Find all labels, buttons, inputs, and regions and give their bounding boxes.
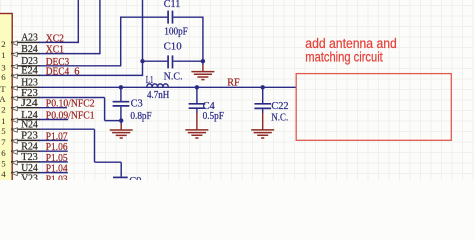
ground stem (C4) [196,109,198,113]
svg-text:0.8pF: 0.8pF [130,111,151,122]
svg-text:1: 1 [1,116,5,126]
wire XC2 vertical [77,0,79,43]
pin A23 [11,41,40,43]
svg-text:U24: U24 [21,163,38,174]
svg-text:6: 6 [1,148,6,158]
svg-text:P1.04: P1.04 [46,164,69,175]
svg-text:L1: L1 [146,75,154,86]
wire net P0.09/NFC1 row [39,119,68,121]
svg-text:C9: C9 [129,176,141,180]
svg-text:N.C.: N.C. [271,112,288,123]
pin D23 direction triangle [12,64,18,68]
wire net P1.04 row [39,172,68,174]
svg-text:RF: RF [227,77,240,88]
pin V23 direction triangle [12,182,18,186]
pin H23 direction triangle [12,86,18,90]
ground stem (C22) [262,109,264,113]
wire C10 left [143,60,168,62]
capacitor C3 [120,87,122,101]
wire net XC2 row [39,41,78,43]
capacitor C9 (cropped at bottom) [113,176,128,178]
svg-text:DEC4: DEC4 [46,66,70,77]
wire net N24 row [39,128,95,130]
pin R24 direction triangle [12,150,18,154]
svg-text:C3: C3 [131,99,143,110]
pin R24 [11,150,40,152]
svg-text:2: 2 [1,39,5,49]
ground (C4) [185,130,208,138]
svg-text:P23: P23 [21,131,38,142]
wire net P1.06 row [39,150,68,152]
pin H23 [11,86,40,88]
ground stem (C10 node) [202,61,204,65]
wire net H23 row [39,86,296,88]
junction main/C3 [119,85,123,89]
wire C11 right [173,16,203,18]
svg-text:3: 3 [1,62,6,72]
svg-text:6: 6 [1,72,6,82]
svg-text:5: 5 [1,126,6,136]
wire F23 to C3 bottom [104,98,106,121]
svg-text:N.C.: N.C. [164,71,183,82]
svg-text:C11: C11 [164,0,181,10]
svg-text:XC2: XC2 [46,33,64,44]
svg-text:T: T [0,84,6,94]
wire DEC3 vertical to C11 [120,17,122,67]
wire net P1.03 row [39,182,68,184]
svg-text:A: A [0,94,6,104]
pin N24 direction triangle [12,128,18,132]
pin A23 direction triangle [12,41,18,45]
svg-text:E24: E24 [21,66,38,77]
svg-text:P0.09/NFC1: P0.09/NFC1 [46,111,95,122]
junction DEC4/C10 [140,59,144,63]
pin E24 direction triangle [12,74,18,78]
ground (C3) [110,130,133,138]
pin F23 [11,97,40,99]
junction C3 bottom/F23/gnd [119,118,123,122]
pin J24 [11,107,40,109]
svg-text:6: 6 [74,66,79,77]
pin T23 direction triangle [12,161,18,165]
svg-text:C10: C10 [164,41,182,52]
svg-text:T23: T23 [21,152,38,163]
pin B24 [11,53,40,55]
svg-text:matching circuit: matching circuit [305,50,383,65]
pin L24 direction triangle [12,118,18,122]
svg-text:0.5pF: 0.5pF [203,111,224,122]
pin P23 direction triangle [12,139,18,143]
wire C10 right [173,60,203,62]
wire net F23 row [39,97,105,99]
svg-text:J24: J24 [21,98,39,109]
wire net DEC3 row [39,65,121,67]
ground (C10 node) [191,72,214,80]
wire C11 left [121,16,168,18]
svg-text:100pF: 100pF [164,26,188,37]
svg-text:P1.06: P1.06 [46,142,68,153]
wire DEC4 vertical [142,0,144,76]
annotation box [296,74,451,141]
wire net P1.05 row [39,161,68,163]
svg-text:P1.07: P1.07 [46,131,68,142]
svg-text:R24: R24 [21,142,38,153]
junction main/C4 [195,85,199,89]
pin U24 [11,172,40,174]
wire net DEC4 row [39,74,143,76]
wire net P0.10/NFC2 row [39,107,67,109]
pin D23 [11,65,40,67]
junction C10/C11/gnd node [201,59,205,63]
wire XC1 vertical [99,0,101,54]
wire net P1.07 row [39,139,68,141]
svg-text:1: 1 [1,50,5,60]
inductor L1 [147,84,169,87]
svg-text:N24: N24 [21,120,38,131]
pin V23 [11,182,40,184]
svg-text:A23: A23 [21,33,38,44]
capacitor C11 [167,11,169,24]
svg-text:XC1: XC1 [46,45,64,56]
ground stem (C3) [120,121,122,124]
capacitor C4 [196,87,198,103]
svg-text:P0.10/NFC2: P0.10/NFC2 [46,99,95,110]
pin U24 direction triangle [12,171,18,175]
svg-text:4.7nH: 4.7nH [147,90,170,101]
svg-text:P1.03: P1.03 [46,174,68,180]
pin E24 [11,74,40,76]
pin L24 [11,119,40,121]
pin N24 [11,128,40,130]
svg-text:B24: B24 [21,44,38,55]
pin F23 direction triangle [12,96,18,100]
IC body U1 (cropped at left) [0,14,12,214]
svg-text:7: 7 [1,137,6,147]
wire N24 staircase [94,129,96,162]
pin J24 direction triangle [12,106,18,110]
ground (C22) [251,130,274,138]
pin T23 [11,161,40,163]
pin P23 [11,139,40,141]
junction main/C22 [261,85,265,89]
svg-text:V23: V23 [21,174,38,180]
svg-text:4: 4 [1,169,6,179]
capacitor C22 [262,87,264,103]
svg-text:2: 2 [1,104,5,114]
svg-text:5: 5 [1,159,6,169]
wire net XC1 row [39,53,100,55]
svg-text:P1.05: P1.05 [46,153,68,164]
svg-text:C22: C22 [271,101,288,112]
pin B24 direction triangle [12,52,18,56]
capacitor C10 [167,55,169,68]
